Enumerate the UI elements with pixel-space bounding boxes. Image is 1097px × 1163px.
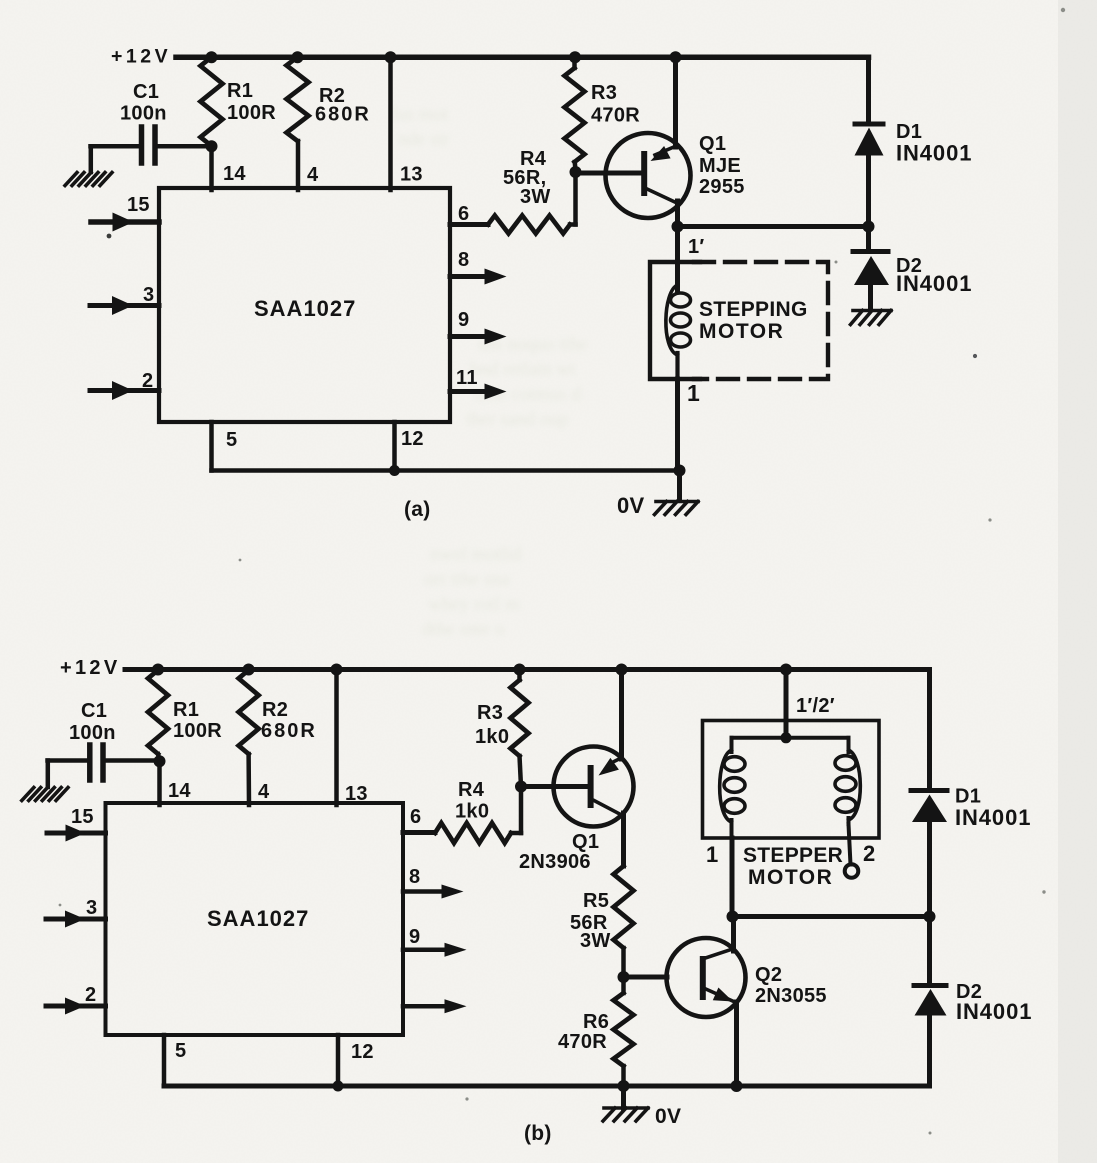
stepper motor box (b) (703, 721, 880, 839)
node rail-R1 (b) (152, 664, 164, 676)
svg-text:13: 13 (400, 164, 423, 186)
pin label 5 (a) (226, 429, 237, 451)
pin label 3 (b) (86, 897, 97, 919)
node rail-R2 (b) (243, 664, 255, 676)
svg-text:5: 5 (175, 1040, 186, 1062)
svg-text:bnd retlain wt: bnd retlain wt (470, 359, 576, 380)
wire output arrow (b) (403, 999, 467, 1013)
svg-text:470R: 470R (591, 105, 640, 127)
svg-text:1: 1 (706, 842, 719, 867)
resistor R2 (a) (287, 57, 309, 141)
resistor R4 (a) (488, 172, 576, 234)
wire pin 5 (a) (209, 422, 214, 471)
svg-text:SAA1027: SAA1027 (254, 296, 356, 321)
wire pin 8 output (a) (450, 269, 507, 285)
pin label 15 (b) (71, 806, 94, 828)
node R6-ground (b) (618, 1080, 630, 1092)
node R3-R4-Q1base (a) (570, 166, 582, 178)
pin label 4 (a) (307, 164, 319, 186)
wire Q1 emitter to rail (b) (619, 670, 624, 760)
inductor motor coil 2 (b) (835, 738, 860, 865)
stepping motor box (a) (650, 262, 828, 379)
svg-text:0V: 0V (655, 1105, 681, 1128)
node rail-R3 (a) (569, 51, 581, 63)
value label D1 IN4001 (b) (955, 786, 1031, 831)
wire pin 12 (b) (336, 1035, 341, 1086)
wire Q1 collector down (b) (621, 813, 626, 866)
wire pin 6 (b) (403, 830, 435, 835)
wire pin 2 input (b) (46, 998, 106, 1015)
print bleed-through from reverse page (392, 104, 588, 640)
resistor R1 (a) (201, 57, 223, 146)
svg-text:0V: 0V (617, 493, 645, 518)
resistor R5 (b) (614, 866, 634, 978)
node R1-C1-pin14 (a) (206, 140, 218, 152)
ic SAA1027 (b) (106, 803, 404, 1035)
svg-text:R5: R5 (583, 890, 609, 912)
wire pin 11 output (a) (450, 384, 507, 400)
svg-text:14: 14 (223, 163, 246, 185)
node motor tap (b) (781, 732, 792, 743)
wire +12V rail (a) (176, 55, 869, 61)
svg-text:100n: 100n (120, 103, 167, 125)
svg-text:100R: 100R (227, 102, 276, 124)
wire rail to D1 (b) (927, 670, 932, 791)
svg-text:8: 8 (458, 249, 469, 271)
diode D1 (b) (911, 791, 947, 917)
svg-text:R3: R3 (477, 702, 503, 724)
svg-text:+12V: +12V (111, 46, 171, 68)
wire Q2 emitter down (b) (734, 1002, 739, 1086)
node rail-Q1 (a) (670, 51, 682, 63)
wire pin 12 (a) (392, 422, 397, 471)
terminal label 2 (b) (863, 841, 876, 866)
caption (a) (404, 498, 431, 521)
svg-text:2N3055: 2N3055 (755, 985, 827, 1007)
ic label SAA1027 (a) (254, 296, 356, 321)
node rail-motor (b) (780, 664, 792, 676)
svg-text:2N3906: 2N3906 (519, 851, 591, 873)
resistor R6 (b) (614, 977, 634, 1086)
value label R2 680R (b) (261, 699, 317, 742)
wire junction to diodes (b) (733, 914, 930, 919)
svg-text:whey rotl m: whey rotl m (428, 594, 520, 615)
label 0V (a) (617, 493, 645, 518)
value label R4 56R 3W (a) (503, 148, 551, 208)
svg-text:Q1: Q1 (699, 133, 726, 155)
svg-text:4: 4 (307, 164, 319, 186)
value label R3 1k0 (b) (475, 702, 509, 748)
svg-text:2: 2 (142, 370, 153, 392)
wire pin 13 (b) (334, 670, 339, 806)
svg-text:MOTOR: MOTOR (699, 320, 784, 343)
svg-text:14: 14 (168, 780, 191, 802)
svg-text:ther sand oup: ther sand oup (466, 409, 568, 430)
node Q2emitter-rail (b) (731, 1080, 743, 1092)
node rail-Q1 (b) (616, 664, 628, 676)
svg-text:SAA1027: SAA1027 (207, 906, 309, 931)
pin label 13 (b) (345, 783, 368, 805)
capacitor C1 (b) (48, 745, 160, 780)
svg-text:+12V: +12V (60, 657, 120, 679)
wire C1 to ground (b) (46, 761, 51, 788)
value label R6 470R (b) (558, 1011, 609, 1053)
pin label 2 (b) (85, 984, 96, 1006)
value label R1 100R (b) (173, 699, 222, 742)
ic label SAA1027 (b) (207, 906, 309, 931)
pin label 8 (b) (409, 866, 420, 888)
wire pin 9 output (b) (403, 943, 467, 957)
capacitor C1 (a) (91, 127, 212, 163)
ground C1 (b) (22, 788, 68, 801)
node pin12-rail (a) (389, 465, 400, 476)
svg-text:8: 8 (409, 866, 420, 888)
wire to 0V ground (b) (621, 1086, 626, 1108)
wire +12V rail (b) (125, 667, 930, 672)
value label D2 IN4001 (a) (896, 255, 972, 296)
node diode junction (a) (863, 221, 875, 233)
svg-text:MOTOR: MOTOR (748, 866, 833, 889)
label 0V (b) (655, 1105, 681, 1128)
wire pin 6 (a) (450, 222, 488, 227)
svg-text:15: 15 (71, 806, 94, 828)
wire C1 to ground (a) (89, 146, 94, 172)
svg-text:3W: 3W (580, 930, 611, 952)
diode D2 (a) (853, 227, 889, 310)
svg-text:R4: R4 (458, 779, 485, 801)
terminal label 1 (b) (706, 842, 719, 867)
terminal circle 2 (b) (845, 864, 859, 878)
svg-text:lus mot: lus mot (392, 104, 449, 125)
svg-text:nwel motlid: nwel motlid (430, 544, 522, 565)
caption (b) (524, 1122, 552, 1145)
wire pin 2 input (a) (90, 381, 159, 400)
svg-text:100n: 100n (69, 722, 116, 744)
value label C1 100n (b) (69, 700, 116, 744)
svg-text:4: 4 (258, 781, 270, 803)
pin label 6 (a) (458, 203, 469, 225)
ref label Q1 2N3906 (b) (519, 831, 599, 873)
svg-text:470R: 470R (558, 1031, 607, 1053)
terminal label 1 (a) (687, 380, 700, 406)
resistor R3 (b) (511, 670, 529, 787)
wire pin 13 (a) (388, 57, 393, 190)
svg-text:R3: R3 (591, 82, 617, 104)
svg-text:R1: R1 (227, 80, 253, 102)
pin label 12 (b) (351, 1041, 374, 1063)
power label +12V (a) (111, 46, 171, 68)
transistor Q1 MJE2955 (a) (606, 133, 691, 218)
svg-text:nde str: nde str (398, 129, 450, 150)
svg-text:orr tthe sna: orr tthe sna (424, 569, 510, 590)
svg-text:1′/2′: 1′/2′ (796, 695, 835, 717)
svg-text:R6: R6 (583, 1011, 609, 1033)
svg-text:Q1: Q1 (572, 831, 599, 853)
svg-text:1′: 1′ (688, 236, 705, 258)
node R3-R4-Q1base (b) (515, 781, 527, 793)
wire Q1 base (b) (521, 784, 587, 789)
transistor Q2 2N3055 (b) (667, 938, 746, 1017)
resistor R3 (a) (565, 57, 585, 171)
node Q1-collector junction (a) (672, 221, 684, 233)
svg-text:IN4001: IN4001 (896, 271, 972, 296)
svg-text:2955: 2955 (699, 176, 745, 198)
svg-text:3W: 3W (520, 186, 551, 208)
wire Q1 base (a) (576, 171, 642, 176)
terminal label 1'/2' (b) (796, 695, 835, 717)
wire Q1 emitter to rail (a) (673, 57, 678, 147)
ground 0V (b) (603, 1108, 648, 1121)
wire bottom rail (b) (164, 1084, 930, 1089)
value label R1 100R (a) (227, 80, 276, 124)
value label R5 56R 3W (b) (570, 890, 611, 952)
wire Q2 collector up (b) (731, 917, 736, 952)
node rail-R1 (a) (206, 51, 218, 63)
svg-text:MJE: MJE (699, 155, 741, 177)
svg-text:11: 11 (456, 367, 478, 389)
pin label 9 (b) (409, 926, 420, 948)
value label R3 470R (a) (591, 82, 640, 127)
node diode junction (b) (924, 911, 936, 923)
wire pin 8 output (b) (403, 885, 464, 899)
resistor R4 (b) (435, 787, 521, 844)
svg-text:680R: 680R (261, 720, 317, 742)
pin label 3 (a) (143, 284, 154, 306)
svg-text:2: 2 (863, 841, 876, 866)
label STEPPING MOTOR (a) (699, 298, 808, 343)
pin label 12 (a) (401, 428, 424, 450)
pin label 6 (b) (410, 806, 421, 828)
svg-text:6: 6 (410, 806, 421, 828)
svg-text:IN4001: IN4001 (955, 805, 1031, 830)
diode D1 (a) (855, 124, 884, 227)
wire Q1 collector down (a) (675, 201, 680, 228)
wire motor inner top (b) (732, 736, 849, 740)
svg-text:1k0: 1k0 (455, 801, 489, 823)
svg-text:1k0: 1k0 (475, 726, 509, 748)
inductor motor coil (a) (666, 262, 691, 380)
value label D2 IN4001 (b) (956, 981, 1032, 1024)
pin label 13 (a) (400, 164, 423, 186)
svg-text:3: 3 (86, 897, 97, 919)
svg-text:6: 6 (458, 203, 469, 225)
svg-text:dthe snte o: dthe snte o (422, 619, 504, 640)
pin label 11 (a) (456, 367, 478, 389)
wire motor terminal 1' (a) (675, 227, 680, 291)
node R1-C1-pin14 (b) (154, 755, 166, 767)
wire pin 14 (a) (209, 146, 214, 190)
transistor Q1 2N3906 (b) (554, 747, 634, 827)
svg-text:STEPPER: STEPPER (743, 844, 843, 867)
svg-text:C1: C1 (81, 700, 107, 722)
svg-text:STEPPING: STEPPING (699, 298, 808, 321)
wire motor 1 to 0V (a) (675, 379, 680, 471)
diode D2 (b) (914, 917, 947, 1087)
svg-text:9: 9 (409, 926, 420, 948)
wire Q2 base (b) (624, 975, 668, 980)
svg-text:(b): (b) (524, 1122, 552, 1145)
svg-text:3: 3 (143, 284, 154, 306)
svg-text:C1: C1 (133, 81, 159, 103)
value label C1 100n (a) (120, 81, 167, 125)
wire pin 14 (b) (157, 761, 162, 805)
wire pin 15 input (b) (47, 825, 106, 842)
node rail-R2 (a) (292, 51, 304, 63)
svg-text:Q2: Q2 (755, 964, 782, 986)
node rail-R3 (b) (514, 664, 526, 676)
wire pin 5 (b) (162, 1035, 167, 1086)
inductor motor coil 1 (b) (720, 738, 745, 917)
wire rail to D1 (a) (866, 57, 871, 124)
ground C1 (a) (65, 173, 112, 186)
node motor1-Q2 junction (b) (727, 911, 739, 923)
wire bottom rail (a) (212, 468, 680, 473)
label STEPPER MOTOR (b) (743, 844, 843, 889)
svg-text:100R: 100R (173, 720, 222, 742)
svg-text:IN4001: IN4001 (956, 999, 1032, 1024)
ref label Q1 MJE 2955 (a) (699, 133, 745, 198)
svg-text:680R: 680R (315, 104, 371, 126)
wire pin 15 input (a) (91, 213, 159, 232)
svg-text:2: 2 (85, 984, 96, 1006)
svg-text:(a): (a) (404, 498, 431, 521)
terminal label 1' (a) (688, 236, 705, 258)
wire pin 3 input (b) (46, 911, 106, 928)
svg-text:12: 12 (351, 1041, 374, 1063)
svg-text:15: 15 (127, 194, 150, 216)
svg-text:R1: R1 (173, 699, 199, 721)
ground 0V (a) (655, 502, 699, 515)
resistor R1 (b) (148, 670, 168, 761)
pin label 14 (a) (223, 163, 246, 185)
wire to 0V ground (a) (677, 471, 682, 501)
svg-text:9: 9 (458, 309, 469, 331)
pin label 9 (a) (458, 309, 469, 331)
node 0V junction (a) (674, 465, 686, 477)
pin label 14 (b) (168, 780, 191, 802)
ground D2 (a) (851, 311, 892, 325)
node R5-R6-Q2base (b) (618, 971, 630, 983)
ic SAA1027 (a) (159, 188, 450, 422)
value label R2 680R (a) (315, 85, 371, 126)
pin label 8 (a) (458, 249, 469, 271)
wire motor centre tap (b) (784, 670, 789, 739)
power label +12V (b) (60, 657, 120, 679)
ref label Q2 2N3055 (b) (755, 964, 827, 1007)
svg-text:R2: R2 (262, 699, 288, 721)
wire pin 9 output (a) (450, 329, 507, 345)
node pin12-rail (b) (333, 1081, 344, 1092)
wire pin 4 (a) (296, 141, 301, 190)
value label R4 1k0 (b) (455, 779, 489, 823)
pin label 15 (a) (127, 194, 150, 216)
svg-text:12: 12 (401, 428, 424, 450)
wire pin 3 input (a) (90, 296, 159, 315)
node rail-pin13 (a) (385, 51, 397, 63)
pin label 5 (b) (175, 1040, 186, 1062)
resistor R2 (b) (239, 670, 259, 805)
value label D1 IN4001 (a) (896, 121, 972, 166)
pin label 4 (b) (258, 781, 270, 803)
svg-text:1: 1 (687, 380, 700, 406)
pin label 2 (a) (142, 370, 153, 392)
wire collector to diodes (a) (678, 224, 869, 229)
node rail-pin13 (b) (331, 664, 343, 676)
svg-text:IN4001: IN4001 (896, 141, 972, 166)
svg-text:5: 5 (226, 429, 237, 451)
